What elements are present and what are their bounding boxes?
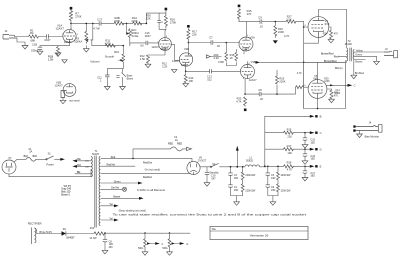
svg-text:V3B: V3B	[251, 60, 256, 64]
node B arrow	[310, 115, 322, 119]
title block	[210, 226, 308, 239]
svg-text:4.7K: 4.7K	[287, 168, 293, 172]
svg-text:C: C	[320, 131, 322, 135]
svg-text:C7: C7	[209, 36, 213, 40]
svg-text:47uF: 47uF	[335, 92, 341, 95]
diode D1	[62, 228, 76, 239]
svg-text:Grn/Yel: Grn/Yel	[111, 187, 119, 190]
svg-text:50925: 50925	[246, 160, 254, 163]
wire B+ distribution rail	[264, 116, 310, 167]
text mains voltage table	[61, 185, 72, 197]
svg-text:1K: 1K	[230, 56, 233, 60]
svg-text:12AX7: 12AX7	[172, 59, 181, 63]
resistor R21/R22 bleeders stack 1	[241, 166, 256, 196]
node B+ (V1A)	[70, 7, 73, 10]
svg-text:V3A: V3A	[250, 35, 255, 39]
capacitor C11 tone	[97, 69, 110, 90]
svg-text:Green: Green	[355, 54, 363, 57]
capacitor C20 heater	[102, 232, 113, 254]
svg-text:Grn (not used): Grn (not used)	[145, 168, 161, 171]
capacitor C1B bypass	[31, 42, 43, 54]
svg-text:1A: 1A	[175, 139, 178, 142]
svg-text:12AX7: 12AX7	[64, 41, 72, 44]
resistor R11	[105, 39, 115, 48]
svg-text:Red/Yel: Red/Yel	[107, 164, 116, 167]
svg-text:45100: 45100	[345, 42, 353, 46]
svg-text:Volume: Volume	[90, 59, 100, 63]
svg-text:Brown 0: Brown 0	[61, 193, 70, 196]
svg-text:5Y3GT: 5Y3GT	[198, 159, 207, 163]
capacitor C17	[93, 18, 114, 31]
svg-text:R18: R18	[287, 161, 292, 165]
switch S3 Bass/Blues	[116, 69, 133, 90]
svg-text:.022: .022	[207, 78, 213, 82]
svg-text:2A: 2A	[29, 151, 32, 154]
resistor R20 grid	[214, 43, 228, 62]
svg-text:22K: 22K	[146, 16, 151, 20]
wire V4 cathode	[304, 38, 319, 44]
resistor R12 cathode V2A	[140, 50, 168, 68]
svg-text:6.3VAC to all filaments: 6.3VAC to all filaments	[137, 188, 166, 192]
node B+ up arrow	[236, 146, 239, 168]
svg-text:BLK: BLK	[33, 155, 38, 158]
svg-text:16D: 16D	[234, 177, 239, 180]
svg-text:16D: 16D	[310, 158, 315, 161]
resistor R1B cathode	[48, 46, 67, 64]
svg-text:4.7K: 4.7K	[284, 34, 290, 38]
svg-text:Yel: Yel	[109, 203, 113, 206]
svg-text:16D: 16D	[310, 141, 315, 144]
svg-text:Brown: Brown	[355, 61, 363, 64]
svg-text:12AX7: 12AX7	[181, 64, 189, 67]
capacitor C9	[246, 16, 286, 29]
svg-text:.0047: .0047	[44, 38, 51, 42]
svg-text:220K/2W: 220K/2W	[245, 190, 256, 193]
svg-text:RECTIFIER: RECTIFIER	[28, 222, 42, 226]
svg-text:Power: Power	[46, 162, 53, 166]
wire tone lower bus	[92, 40, 124, 46]
resistor R7 plate	[69, 9, 81, 29]
pilot lamp	[101, 187, 127, 192]
potentiometer volume 500KA	[74, 23, 92, 44]
tube V5 6V6	[296, 62, 331, 98]
tube V3A	[238, 35, 255, 52]
capacitor C2	[44, 34, 63, 42]
svg-text:G: G	[186, 242, 188, 246]
tube V2B	[171, 45, 192, 67]
node arrow to T1	[60, 158, 65, 161]
svg-text:1K 3W: 1K 3W	[89, 237, 97, 240]
resistor R23 cathode V3B	[236, 79, 246, 107]
svg-text:50KL: 50KL	[138, 247, 144, 250]
plug P1 mains	[2, 157, 91, 177]
svg-text:Smooth: Smooth	[105, 55, 115, 59]
svg-text:12AX7: 12AX7	[160, 48, 168, 51]
capacitor C13	[186, 69, 241, 82]
svg-text:68K: 68K	[31, 38, 36, 42]
capacitor C16b	[302, 149, 315, 164]
svg-text:16D: 16D	[271, 189, 276, 192]
choke L1	[230, 157, 266, 168]
switch S2 standby	[200, 163, 245, 175]
svg-text:220K/2W: 220K/2W	[245, 174, 256, 177]
svg-text:Treble: Treble	[131, 34, 139, 38]
resistor R26 bias feed	[273, 22, 290, 44]
wire V5 cathode	[317, 99, 319, 109]
svg-text:50KL: 50KL	[162, 247, 168, 250]
svg-text:4.7K: 4.7K	[297, 72, 302, 75]
wire CT Red/Yel	[101, 164, 160, 172]
svg-text:R14: R14	[90, 227, 95, 230]
potentiometer hum balance 2	[162, 232, 188, 255]
potentiometer hum balance 1	[138, 232, 164, 255]
svg-text:.0047: .0047	[144, 34, 151, 38]
svg-text:22K: 22K	[287, 134, 292, 138]
svg-text:12AX7: 12AX7	[249, 78, 257, 82]
tube V3B	[240, 51, 257, 81]
svg-text:C8: C8	[258, 88, 262, 92]
svg-text:Bias Monitor: Bias Monitor	[365, 134, 380, 138]
wire heater brown arrow	[101, 196, 144, 200]
svg-text:B: B	[320, 115, 322, 119]
speaker jack J2	[384, 47, 398, 58]
svg-text:Red/Grn: Red/Grn	[143, 176, 153, 179]
svg-text:22K: 22K	[192, 33, 197, 37]
wire heater dc rail	[105, 232, 191, 234]
svg-text:Green: Green	[114, 180, 121, 183]
wire OT secondary bottom to ground	[351, 59, 365, 78]
inductor heater winding	[32, 228, 62, 245]
resistor R19 grid	[218, 49, 238, 65]
svg-text:C1B: C1B	[32, 42, 37, 46]
node bias (V3B)	[244, 109, 247, 112]
wire plate bus	[70, 23, 99, 25]
wires OT secondary taps	[354, 49, 384, 65]
svg-text:220K/2W: 220K/2W	[281, 174, 292, 177]
svg-text:100K: 100K	[324, 81, 330, 83]
capacitor C14 label	[335, 67, 343, 95]
wire grid rail V4/V5	[303, 22, 305, 109]
svg-text:RED: RED	[168, 143, 173, 146]
svg-text:R10: R10	[114, 50, 119, 54]
capacitor C7	[188, 36, 239, 48]
ground (volume pot)	[83, 46, 100, 64]
resistor R1A	[131, 16, 146, 25]
svg-text:2.2K: 2.2K	[162, 64, 168, 68]
wire HV lower to rectifier	[101, 173, 187, 179]
svg-text:J1: J1	[5, 29, 8, 33]
potentiometer R2C Treble	[126, 23, 139, 45]
svg-text:Blk(on): Blk(on)	[335, 67, 343, 70]
svg-text:Vermeulen 26: Vermeulen 26	[250, 234, 269, 238]
wire 5v winding	[101, 180, 143, 184]
svg-text:450: 450	[109, 246, 114, 249]
capacitor C16	[140, 31, 159, 47]
svg-text:6V6: 6V6	[325, 22, 330, 26]
node C arrow (rail)	[310, 131, 322, 135]
wire V4 plate to OT	[318, 10, 346, 49]
svg-text:not used: not used	[69, 99, 80, 103]
svg-text:220K: 220K	[279, 80, 285, 84]
svg-text:100K: 100K	[114, 19, 120, 23]
svg-text:470K: 470K	[218, 60, 224, 64]
resistor R23b/R24b bleeders stack 2	[277, 166, 292, 196]
node D arrow	[310, 148, 322, 152]
svg-text:.02: .02	[259, 25, 263, 29]
svg-text:C: C	[354, 84, 356, 88]
svg-text:10K: 10K	[189, 79, 194, 83]
wire V1A cathode bus	[40, 43, 70, 46]
svg-text:C9: C9	[258, 16, 262, 20]
node B+ (V2B)	[187, 25, 190, 28]
node C arrow (screen)	[327, 84, 356, 88]
svg-text:R24: R24	[323, 33, 328, 36]
fuse F2 HT	[133, 136, 192, 158]
resistor R17b preamp feed	[265, 144, 310, 155]
input jack J1	[3, 29, 29, 39]
svg-text:C17: C17	[97, 18, 102, 22]
resistor R16 plate with bypass cap	[157, 13, 176, 29]
enclosure box V5	[304, 61, 346, 109]
ground (stack 1)	[231, 196, 243, 206]
svg-text:Brown/Red: Brown/Red	[324, 60, 337, 63]
svg-text:16D: 16D	[310, 175, 315, 178]
svg-text:10K: 10K	[287, 151, 292, 155]
svg-text:To use solid state rectifier,: To use solid state rectifier, connect th…	[113, 213, 307, 217]
svg-text:50125: 50125	[92, 153, 100, 156]
potentiometer R10 Smooth	[105, 46, 125, 69]
resistor R25	[276, 70, 286, 94]
tube V1A	[56, 23, 79, 44]
wire HV secondary to rectifier	[101, 156, 192, 164]
resistor R17 plate V2B	[187, 28, 198, 53]
svg-text:16D: 16D	[271, 177, 276, 180]
svg-text:270K: 270K	[170, 20, 176, 24]
resistor R2B	[114, 16, 133, 25]
svg-text:.02: .02	[259, 97, 263, 101]
svg-text:12AX7: 12AX7	[242, 49, 250, 52]
node E arrow	[310, 165, 322, 169]
resistor R27 grid stopper	[286, 15, 304, 24]
tube V6 rectifier	[187, 156, 207, 175]
resistor R15b screen feed	[265, 127, 310, 138]
svg-text:Yel: Yel	[109, 217, 113, 220]
svg-text:Red/Grn: Red/Grn	[143, 161, 153, 164]
resistor R28 screen V5	[327, 89, 339, 103]
resistor R18b B+ feed	[266, 161, 310, 172]
svg-text:220K: 220K	[278, 30, 284, 34]
svg-text:RED: RED	[177, 143, 182, 146]
svg-text:Red: Red	[334, 55, 339, 58]
svg-text:220K/2W: 220K/2W	[281, 190, 292, 193]
capacitor C5/C6 filter stack 2	[266, 166, 276, 196]
ground (stack 2)	[268, 196, 278, 206]
wire to V2A	[130, 43, 146, 46]
svg-text:E: E	[320, 165, 322, 169]
wire riser to top bus	[146, 13, 160, 24]
node A arrow (drive to V5)	[256, 61, 346, 64]
svg-text:12AX7: 12AX7	[56, 26, 65, 30]
svg-text:1N4007: 1N4007	[66, 236, 75, 239]
switch S1 power	[46, 153, 61, 167]
svg-text:Yellow: Yellow	[356, 49, 363, 52]
tube V2A	[151, 29, 171, 51]
svg-text:16D: 16D	[234, 189, 239, 192]
svg-text:270K: 270K	[75, 15, 81, 19]
transformer T1 power	[85, 150, 100, 227]
fuse F1	[24, 148, 47, 161]
svg-text:Brown/Red: Brown/Red	[321, 52, 334, 55]
svg-text:1.5K: 1.5K	[48, 58, 54, 62]
svg-text:4.7K: 4.7K	[236, 100, 242, 104]
svg-text:470: 470	[334, 95, 339, 98]
svg-text:Blues: Blues	[127, 77, 134, 81]
svg-text:Title: Title	[211, 228, 216, 231]
resistor R14 heater	[66, 227, 105, 240]
svg-text:1.5K: 1.5K	[140, 57, 146, 61]
tube V4 6V6	[304, 17, 330, 38]
node B+ (V2A)	[165, 8, 168, 13]
capacitor C19	[204, 167, 216, 186]
svg-text:12AX7: 12AX7	[55, 83, 64, 87]
node B+ (V3A)	[238, 5, 241, 8]
capacitor C8	[245, 87, 295, 101]
capacitor C15	[302, 133, 315, 148]
resistor R15 plate V3A	[238, 8, 253, 37]
node NFB arrow	[206, 55, 221, 58]
node arrows T1 primary	[72, 158, 91, 174]
svg-text:500KA: 500KA	[74, 40, 82, 44]
ground (mid)	[171, 69, 177, 72]
tube V1B unused	[55, 80, 80, 104]
bias monitor jack J4	[353, 121, 382, 139]
resistor R1	[29, 28, 47, 42]
transformer T2 output	[321, 39, 354, 63]
svg-text:12AX7: 12AX7	[151, 45, 160, 49]
svg-text:Red: Red	[111, 156, 116, 159]
svg-text:R29: R29	[324, 78, 329, 80]
capacitor C17b	[302, 166, 315, 181]
wire heater yel arrows	[101, 203, 119, 221]
ground (input jack)	[17, 38, 28, 49]
svg-text:Brn/Red: Brn/Red	[355, 72, 365, 75]
capacitor C3/C4 filter stack 1	[228, 167, 238, 196]
svg-text:4.7nF: 4.7nF	[93, 26, 100, 30]
resistor R24 screen	[323, 27, 339, 43]
svg-text:.047: .047	[211, 177, 216, 180]
resistor R13 cathode V2B	[183, 66, 194, 87]
svg-text:.02: .02	[216, 44, 220, 48]
svg-text:1M: 1M	[140, 45, 143, 47]
svg-text:470: 470	[334, 33, 339, 36]
svg-text:D: D	[320, 148, 322, 152]
svg-text:47K: 47K	[247, 12, 252, 16]
svg-text:Brown: Brown	[113, 196, 120, 199]
